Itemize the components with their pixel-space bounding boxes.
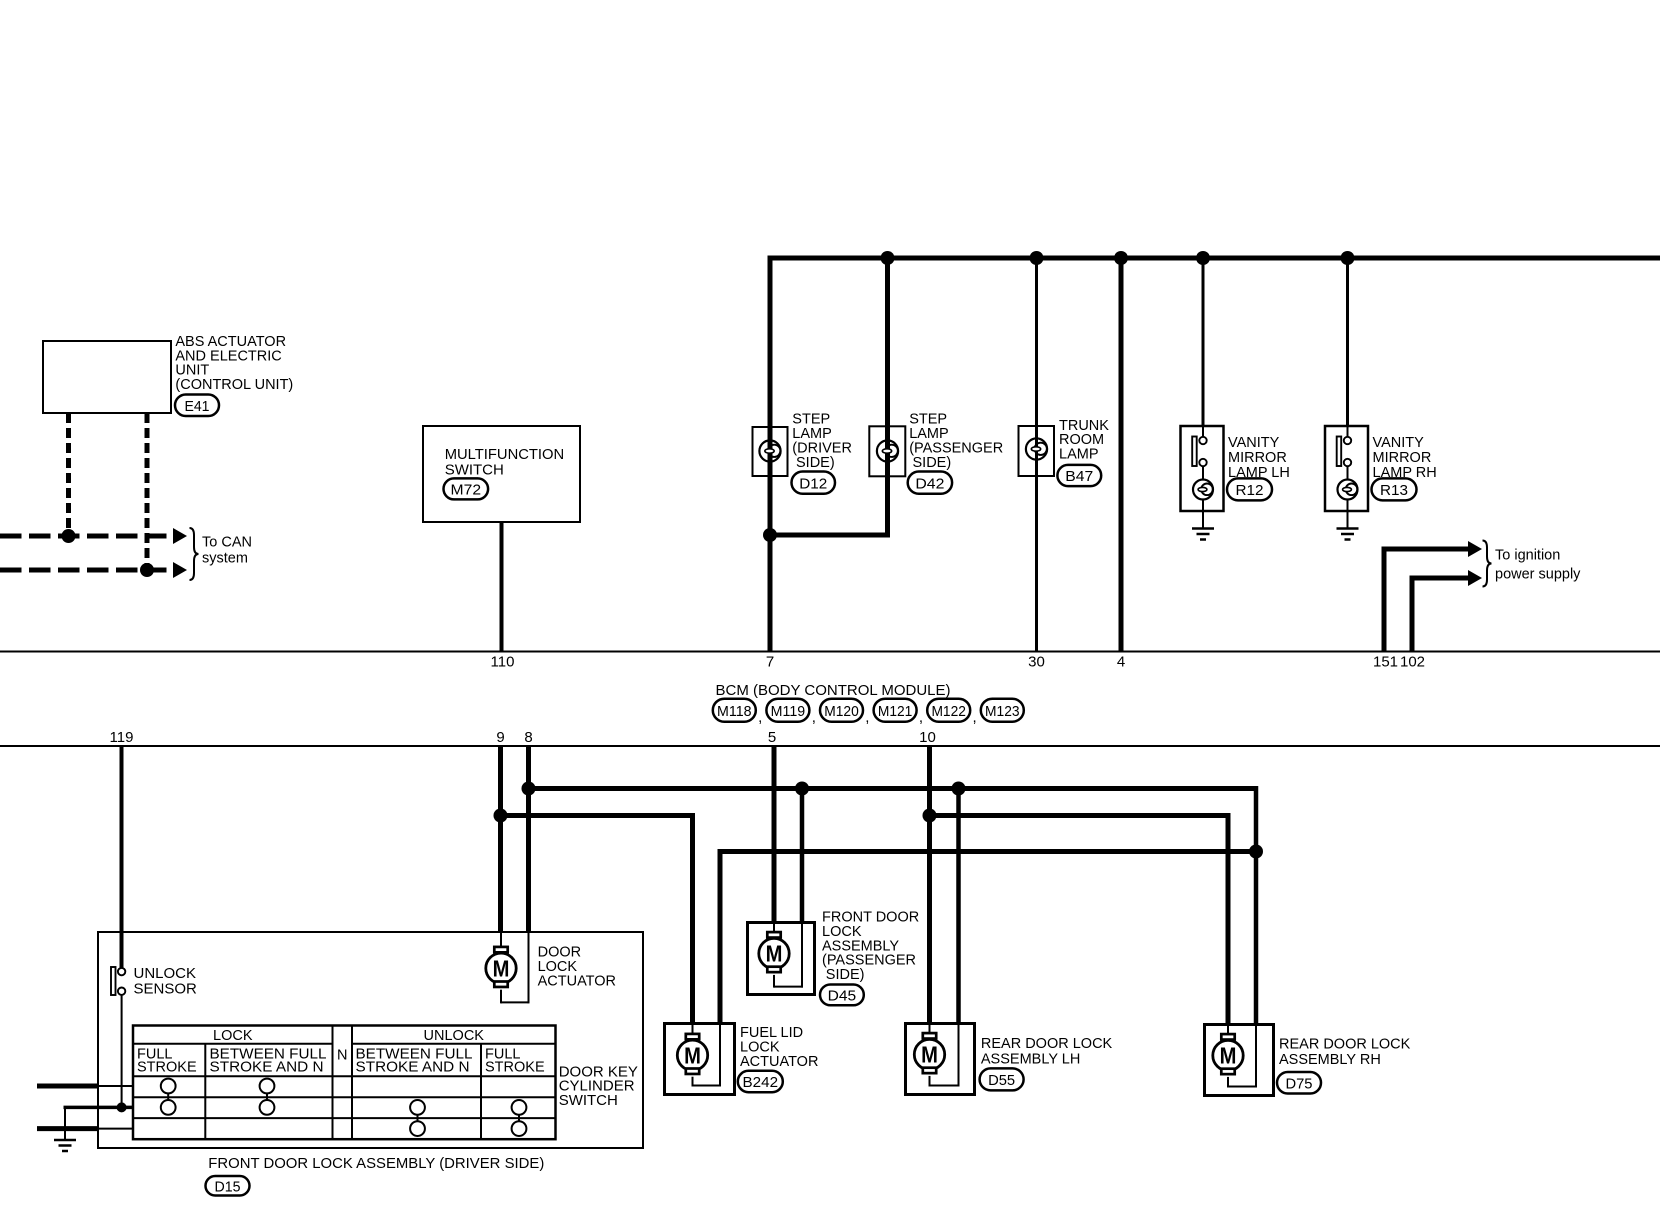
svg-text:D55: D55 <box>988 1072 1015 1089</box>
svg-text:M: M <box>921 1042 938 1068</box>
svg-text:B242: B242 <box>743 1074 779 1091</box>
svg-text:7: 7 <box>766 654 774 671</box>
svg-text:R13: R13 <box>1380 482 1408 499</box>
svg-text:30: 30 <box>1028 654 1045 671</box>
svg-text:To ignition: To ignition <box>1495 548 1560 564</box>
svg-text:M123: M123 <box>985 703 1020 720</box>
svg-text:D15: D15 <box>215 1178 241 1195</box>
svg-text:10: 10 <box>919 729 936 746</box>
svg-text:119: 119 <box>110 729 134 746</box>
svg-text:M72: M72 <box>451 482 482 499</box>
svg-text:FRONT DOOR LOCK ASSEMBLY (DRIV: FRONT DOOR LOCK ASSEMBLY (DRIVER SIDE) <box>208 1155 544 1172</box>
svg-text:5: 5 <box>768 729 776 746</box>
svg-text:ASSEMBLY RH: ASSEMBLY RH <box>1279 1052 1381 1068</box>
svg-text:MULTIFUNCTION: MULTIFUNCTION <box>445 446 565 463</box>
svg-text:VANITY: VANITY <box>1373 435 1425 451</box>
svg-text:M121: M121 <box>878 703 913 720</box>
svg-text:,: , <box>812 709 816 726</box>
svg-text:M120: M120 <box>824 703 859 720</box>
svg-text:VANITY: VANITY <box>1228 435 1280 451</box>
svg-text:BCM (BODY CONTROL MODULE): BCM (BODY CONTROL MODULE) <box>716 682 951 699</box>
svg-text:M118: M118 <box>717 703 752 720</box>
svg-text:D42: D42 <box>915 475 944 492</box>
svg-text:8: 8 <box>524 729 532 746</box>
svg-text:M: M <box>766 941 783 967</box>
svg-text:SENSOR: SENSOR <box>134 981 198 998</box>
svg-text:To CAN: To CAN <box>202 535 252 551</box>
svg-text:M122: M122 <box>931 703 966 720</box>
svg-text:M: M <box>684 1043 701 1069</box>
svg-text:LAMP: LAMP <box>1059 447 1099 463</box>
svg-text:M119: M119 <box>771 703 806 720</box>
svg-text:ASSEMBLY LH: ASSEMBLY LH <box>981 1051 1080 1067</box>
svg-text:STROKE AND N: STROKE AND N <box>210 1060 324 1076</box>
svg-text:REAR DOOR LOCK: REAR DOOR LOCK <box>1279 1037 1411 1053</box>
svg-text:,: , <box>973 709 977 726</box>
svg-text:R12: R12 <box>1236 482 1264 499</box>
svg-text:B47: B47 <box>1065 468 1093 485</box>
svg-text:M: M <box>493 956 510 982</box>
svg-text:D12: D12 <box>799 475 827 492</box>
svg-text:SIDE): SIDE) <box>796 455 835 471</box>
svg-text:SIDE): SIDE) <box>826 967 865 983</box>
svg-text:D45: D45 <box>828 988 857 1005</box>
svg-text:102: 102 <box>1400 654 1425 671</box>
svg-text:REAR DOOR LOCK: REAR DOOR LOCK <box>981 1036 1113 1052</box>
svg-text:,: , <box>865 709 869 726</box>
svg-text:D75: D75 <box>1286 1075 1313 1092</box>
svg-text:N: N <box>337 1048 347 1064</box>
svg-text:SWITCH: SWITCH <box>559 1092 618 1109</box>
svg-text:9: 9 <box>496 729 504 746</box>
svg-text:MIRROR: MIRROR <box>1373 450 1432 466</box>
svg-text:ACTUATOR: ACTUATOR <box>538 974 616 990</box>
svg-text:UNLOCK: UNLOCK <box>424 1028 485 1044</box>
svg-text:SIDE): SIDE) <box>913 455 952 471</box>
svg-text:MIRROR: MIRROR <box>1228 450 1287 466</box>
svg-text:4: 4 <box>1117 654 1125 671</box>
svg-text:power supply: power supply <box>1495 566 1581 582</box>
svg-text:LOCK: LOCK <box>213 1028 253 1044</box>
svg-text:,: , <box>919 709 923 726</box>
svg-text:SWITCH: SWITCH <box>445 462 504 479</box>
svg-text:STROKE AND N: STROKE AND N <box>356 1060 470 1076</box>
svg-text:STROKE: STROKE <box>137 1060 197 1076</box>
svg-text:ACTUATOR: ACTUATOR <box>740 1054 818 1070</box>
svg-text:M: M <box>1220 1043 1237 1069</box>
svg-text:(CONTROL UNIT): (CONTROL UNIT) <box>175 377 293 393</box>
svg-text:STROKE: STROKE <box>485 1060 545 1076</box>
svg-text:110: 110 <box>491 654 515 671</box>
svg-text:151: 151 <box>1373 654 1398 671</box>
svg-text:UNLOCK: UNLOCK <box>134 965 197 982</box>
svg-text:system: system <box>202 551 248 567</box>
svg-text:E41: E41 <box>185 398 210 415</box>
svg-text:,: , <box>758 709 762 726</box>
